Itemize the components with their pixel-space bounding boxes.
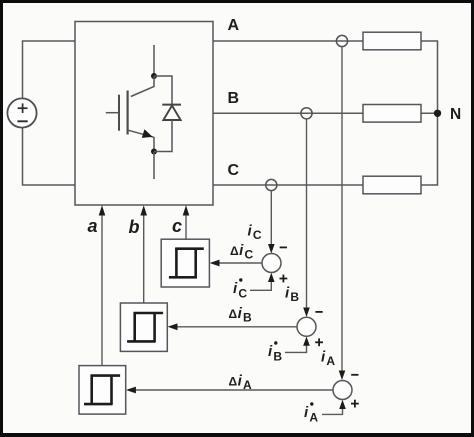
hysteresis comparator A box <box>79 366 126 415</box>
summing junction C <box>262 254 281 273</box>
svg-text:b: b <box>129 217 140 237</box>
plus sign junction A <box>351 400 359 408</box>
wire gate a <box>101 215 103 366</box>
svg-text:B: B <box>228 90 240 107</box>
summing junction A <box>333 381 352 400</box>
arrow into summing junction B <box>303 308 310 318</box>
wire feedback iA <box>341 47 343 372</box>
svg-text:a: a <box>88 216 98 236</box>
IGBT top junction dot <box>151 73 157 79</box>
load resistor phase C <box>363 176 421 194</box>
arrow reference into junction C <box>268 273 275 282</box>
label iC* reference <box>233 278 247 300</box>
wire gate c <box>185 215 187 240</box>
svg-text:A: A <box>228 17 240 34</box>
wire feedback iC <box>270 191 272 246</box>
node N dot <box>434 110 441 117</box>
wire phase C <box>213 184 363 186</box>
current sensor C <box>266 179 277 190</box>
wire reference iA* <box>322 408 343 414</box>
arrow into hysteresis A <box>126 387 136 394</box>
wire DC loop top <box>23 41 76 99</box>
arrow reference into junction A <box>339 400 346 409</box>
current sensor B <box>301 108 312 119</box>
summing junction B <box>297 317 316 336</box>
svg-text:N: N <box>450 106 461 123</box>
hysteresis comparator B box <box>120 303 167 351</box>
inverter box U1 <box>75 22 213 206</box>
arrow reference into junction B <box>303 337 310 346</box>
label iA* reference <box>304 402 318 424</box>
load resistor phase A <box>363 32 421 50</box>
minus sign junction A <box>351 374 358 376</box>
wire DC loop bottom <box>23 128 76 186</box>
label iB* reference <box>268 341 282 363</box>
wire feedback iB <box>306 119 308 309</box>
hysteresis symbol C <box>169 248 204 278</box>
IGBT bottom junction dot <box>151 149 157 155</box>
wire phase A <box>213 40 363 42</box>
current sensor A <box>336 35 347 46</box>
hysteresis symbol A <box>84 375 120 405</box>
wire right rail to N <box>421 41 438 185</box>
wire error output B <box>177 326 297 328</box>
arrow into hysteresis B <box>168 323 178 330</box>
hysteresis symbol B <box>127 312 163 342</box>
plus sign junction C <box>280 275 288 283</box>
load resistor phase B <box>363 105 421 123</box>
arrow into summing junction A <box>339 371 346 381</box>
wire error output A <box>136 389 334 391</box>
arrow gate a into inverter <box>99 205 106 215</box>
IGBT Q1 collector wire <box>153 45 155 76</box>
IGBT Q1 symbol <box>106 76 154 152</box>
arrow gate b into inverter <box>140 205 147 215</box>
minus sign junction B <box>315 311 322 313</box>
plus sign junction B <box>315 338 323 346</box>
wire phase B <box>213 112 363 114</box>
arrow into summing junction C <box>268 244 275 254</box>
arrow gate c into inverter <box>183 205 190 215</box>
svg-text:C: C <box>228 162 240 179</box>
wire reference iC* <box>250 281 271 290</box>
arrow into hysteresis C <box>210 260 220 267</box>
DC source V1 <box>7 98 36 127</box>
IGBT emitter wire <box>153 152 155 180</box>
freewheel diode D1 <box>154 76 181 152</box>
wire reference iB* <box>285 345 307 352</box>
wire error output C <box>219 262 262 264</box>
hysteresis comparator C box <box>161 239 209 287</box>
svg-text:c: c <box>172 216 182 236</box>
wire gate b <box>143 215 145 304</box>
minus sign junction C <box>280 246 287 248</box>
wire resistor B to N <box>421 112 438 114</box>
